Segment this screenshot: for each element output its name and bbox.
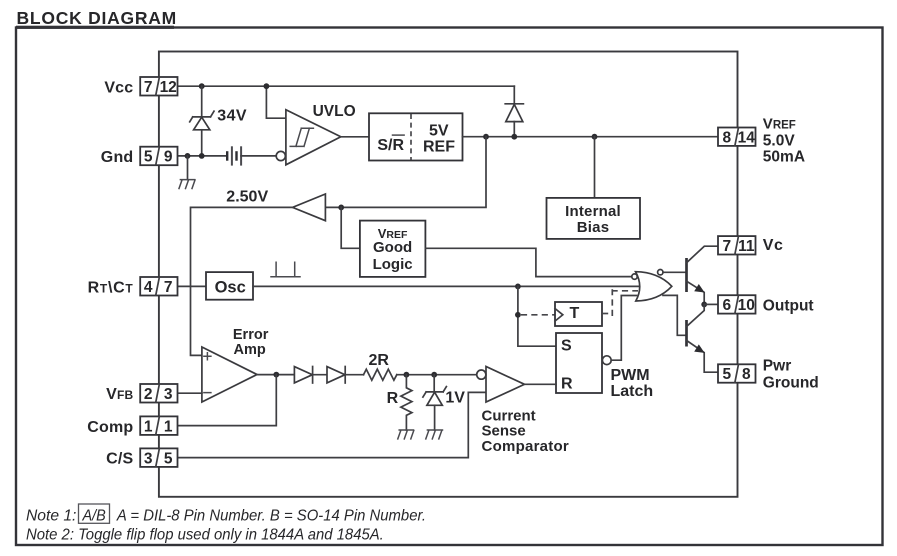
svg-text:7: 7 — [144, 79, 153, 96]
svg-text:T: T — [570, 305, 580, 322]
svg-text:34V: 34V — [217, 107, 247, 124]
svg-text:Osc: Osc — [215, 279, 246, 297]
svg-text:A = DIL-8 Pin Number. B = SO-1: A = DIL-8 Pin Number. B = SO-14 Pin Numb… — [116, 508, 426, 525]
svg-text:Internal: Internal — [565, 203, 621, 220]
svg-text:50mA: 50mA — [763, 149, 805, 166]
svg-text:4: 4 — [144, 279, 153, 296]
pin Gnd 5/9 — [140, 147, 177, 166]
node Output junction — [701, 302, 707, 308]
svg-text:1V: 1V — [445, 390, 465, 407]
wire VREF down to 2.50V buffer input — [325, 137, 486, 208]
battery offset source (UVLO hysteresis) — [227, 146, 241, 165]
pin Comp 1/1 — [140, 416, 177, 435]
svg-text:C/S: C/S — [106, 451, 133, 468]
op-amp UVLO comparator — [276, 110, 341, 165]
svg-text:1: 1 — [144, 418, 153, 435]
node junction VREF/internal bias — [592, 134, 598, 140]
resistor 2R — [364, 369, 397, 380]
ground symbol (Gnd pin) — [179, 156, 195, 189]
wire Gnd to battery — [178, 155, 228, 157]
svg-text:5: 5 — [164, 450, 173, 467]
wire Comp pin to error amp output — [178, 375, 277, 426]
pin RT/CT 4/7 — [140, 277, 177, 296]
block VREF Good Logic — [360, 221, 426, 277]
wire VFB pin to error amp — [178, 392, 202, 394]
svg-text:BLOCK DIAGRAM: BLOCK DIAGRAM — [17, 8, 177, 28]
svg-text:Gnd: Gnd — [101, 149, 134, 166]
svg-text:2.50V: 2.50V — [226, 188, 268, 205]
latch U2 PWM Latch — [556, 333, 611, 393]
svg-text:8: 8 — [742, 366, 751, 383]
svg-text:12: 12 — [160, 79, 177, 96]
svg-text:2R: 2R — [369, 352, 390, 369]
wire VREF rail to pin 8/14 — [463, 136, 719, 138]
svg-text:Logic: Logic — [373, 256, 413, 273]
svg-text:2: 2 — [144, 386, 153, 403]
wire gate to upper transistor base — [663, 271, 687, 273]
node junction Osc line / latch S — [515, 284, 521, 290]
transistor Q2 (lower NPN) — [687, 304, 719, 372]
wire dashed toggle output to OR gate — [602, 313, 612, 315]
svg-text:S/R: S/R — [377, 137, 404, 154]
wire VREF to Internal Bias — [594, 137, 596, 198]
svg-text:14: 14 — [738, 129, 756, 146]
pin C/S 3/5 — [140, 448, 177, 467]
wire buffer output to error amp + input — [191, 207, 293, 355]
oscillator waveform symbol — [271, 262, 300, 277]
svg-text:5: 5 — [144, 149, 153, 166]
block Internal Bias — [547, 198, 641, 239]
svg-text:7: 7 — [164, 279, 173, 296]
svg-text:VREF: VREF — [763, 116, 796, 133]
svg-text:6: 6 — [722, 297, 731, 314]
svg-text:Amp: Amp — [234, 342, 266, 358]
node junction VREF/diode — [511, 134, 517, 140]
wire C/S pin to comparator — [178, 392, 487, 457]
OR gate output stage — [632, 270, 672, 302]
wire battery to UVLO inverting input — [241, 155, 276, 157]
node junction VREF/buffer — [483, 134, 489, 140]
node junction toggle clock tap — [515, 312, 521, 318]
ground symbol (R) — [398, 430, 414, 439]
svg-text:8: 8 — [722, 129, 731, 146]
svg-text:5V: 5V — [429, 122, 449, 139]
op-amp Current Sense Comparator — [477, 367, 525, 403]
zener diode 34V — [190, 86, 214, 156]
diode D3 — [327, 367, 364, 384]
note 1 A/B box — [79, 504, 110, 523]
svg-text:Note 1:: Note 1: — [26, 508, 76, 525]
title underline — [16, 26, 174, 29]
node junction error amp output / Comp — [273, 372, 279, 378]
svg-text:Latch: Latch — [611, 383, 654, 400]
wire to PWM latch S input — [518, 286, 556, 346]
svg-text:5: 5 — [722, 366, 731, 383]
node junction zener 1V — [431, 372, 437, 378]
node junction Gnd/ground — [185, 153, 191, 159]
resistor R — [401, 375, 412, 430]
wire divider to current sense comparator — [397, 374, 477, 376]
pin VREF 8/14 — [718, 128, 756, 147]
wire Output node to pin 6/10 — [704, 303, 718, 305]
svg-text:10: 10 — [738, 297, 755, 314]
svg-text:R: R — [387, 390, 399, 407]
svg-text:PWM: PWM — [611, 367, 650, 384]
wire RT/CT pin to Osc — [178, 285, 207, 287]
wire gate to lower transistor base — [663, 295, 687, 335]
pin VFB 2/3 — [140, 384, 177, 403]
toggle flip flop T (dashed option) — [555, 302, 602, 326]
pin Output 6/10 — [718, 295, 756, 314]
diode D2 — [294, 367, 327, 384]
node junction resistor R — [404, 372, 410, 378]
svg-text:Comparator: Comparator — [482, 438, 570, 455]
node junction Gnd/zener — [199, 153, 205, 159]
wire latch output to OR gate — [611, 296, 636, 361]
node junction Vcc/zener — [199, 83, 205, 89]
wire Osc output to OR gate — [253, 285, 642, 287]
svg-text:Note 2: Toggle flip flop used: Note 2: Toggle flip flop used only in 18… — [26, 527, 384, 544]
IC boundary rectangle — [159, 52, 738, 497]
pin Vc 7/11 — [718, 236, 756, 255]
svg-text:RT\CT: RT\CT — [88, 280, 134, 297]
svg-text:Error: Error — [233, 327, 269, 343]
svg-text:7: 7 — [722, 238, 731, 255]
svg-text:R: R — [561, 376, 573, 393]
wire UVLO output to S/R block — [341, 136, 369, 138]
svg-text:3: 3 — [144, 450, 153, 467]
svg-text:Bias: Bias — [577, 219, 610, 236]
ground symbol (1V zener) — [426, 430, 443, 439]
wire dashed to toggle flip flop clock — [521, 314, 555, 316]
zener diode 1V — [423, 375, 447, 430]
svg-text:Good: Good — [373, 239, 412, 256]
block S/R 5V REF — [369, 113, 463, 160]
pin Pwr Ground 5/8 — [718, 364, 756, 383]
transistor Q1 (upper NPN) — [687, 246, 719, 304]
svg-text:Output: Output — [763, 297, 814, 314]
error amplifier U3 — [202, 347, 257, 402]
svg-text:5.0V: 5.0V — [763, 132, 796, 149]
wire Vcc rail — [178, 85, 515, 87]
svg-text:Pwr: Pwr — [763, 358, 791, 375]
svg-text:VFB: VFB — [106, 386, 133, 403]
wire comparator output to latch R — [525, 383, 557, 385]
svg-text:Vc: Vc — [763, 237, 784, 254]
svg-text:Comp: Comp — [87, 419, 133, 436]
svg-text:REF: REF — [423, 138, 455, 155]
block Osc — [206, 272, 253, 300]
svg-text:A/B: A/B — [82, 508, 106, 525]
svg-text:9: 9 — [164, 149, 173, 166]
wire to VREF Good Logic input — [341, 207, 360, 248]
svg-text:Vcc: Vcc — [104, 80, 133, 97]
op-amp 2.50V reference buffer — [293, 194, 326, 221]
pin Vcc 7/12 — [140, 77, 177, 96]
wire VREF Good Logic output to OR gate — [425, 248, 631, 276]
wire error amp output — [257, 374, 294, 376]
svg-text:Ground: Ground — [763, 375, 819, 392]
diode D1 (Vcc clamp to VREF rail) — [505, 104, 523, 137]
node junction buffer input / good logic — [338, 205, 344, 211]
svg-text:UVLO: UVLO — [313, 103, 356, 120]
wire UVLO noninverting input from Vcc — [266, 86, 286, 118]
wire Vcc to protection diode — [513, 86, 515, 103]
svg-text:S: S — [561, 337, 572, 354]
svg-text:11: 11 — [738, 238, 755, 255]
svg-text:1: 1 — [164, 418, 173, 435]
svg-text:3: 3 — [164, 386, 173, 403]
node junction Vcc/UVLO — [264, 83, 270, 89]
